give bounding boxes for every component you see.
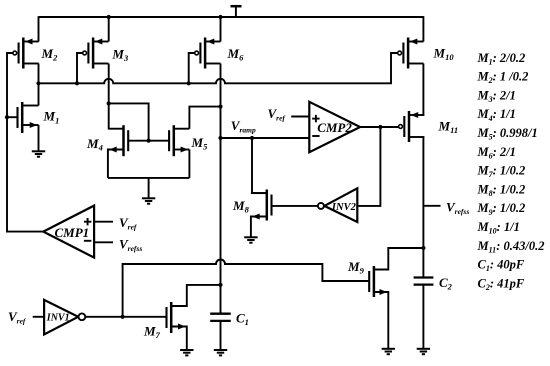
wire CMP2 output to M11 gate <box>360 126 399 128</box>
inverter INV2 <box>318 188 357 222</box>
wire M3 drain vertical <box>108 64 110 104</box>
svg-text:INV1: INV1 <box>46 312 70 323</box>
svg-text:INV2: INV2 <box>331 202 357 213</box>
transistor M5 (NMOS) <box>169 125 189 156</box>
node M3 gate / bus junction <box>75 81 79 85</box>
svg-text:C1: 40pF: C1: 40pF <box>478 258 525 274</box>
node M1 gate junction <box>5 115 9 119</box>
wire Vramp node to CMP2 negative input <box>221 137 310 139</box>
wire CMP1 positive input lead <box>94 221 113 223</box>
svg-text:C2: 41pF: C2: 41pF <box>478 276 525 292</box>
inverter INV1 <box>44 300 85 335</box>
node M7 drain / C1 junction <box>218 283 222 287</box>
node M5 drain / M6 drain junction <box>218 105 222 109</box>
ground under M8 <box>244 237 257 242</box>
wire C2 bottom to ground <box>422 285 424 349</box>
transistor M8 (NMOS) <box>251 190 272 221</box>
svg-text:M10: 1/1: M10: 1/1 <box>477 220 520 236</box>
svg-text:CMP1: CMP1 <box>55 225 90 240</box>
capacitor C1 <box>210 314 231 321</box>
transistor M11 (PMOS) <box>399 111 425 142</box>
wire M6 source to rail <box>220 16 222 41</box>
wire INV1 output to M9 gate (hops over C1 branch) <box>123 260 370 317</box>
wire tail rail to ground <box>148 178 150 198</box>
transistor M10 (PMOS) <box>398 38 424 69</box>
transistor M7 (NMOS) <box>167 302 187 333</box>
node M6 gate / bus junction <box>187 81 191 85</box>
transistor M3 (PMOS) <box>83 38 109 69</box>
wire M11 drain vertical down to C2 <box>422 137 424 278</box>
wire M10 source to rail <box>422 16 424 41</box>
node M4/M5 gate junction <box>147 139 151 143</box>
wire INV1 output to M7 gate <box>86 316 168 318</box>
wire M7 drain to C1 top node <box>172 285 220 306</box>
node CMP2 output / INV2 input junction <box>378 125 382 129</box>
wire M4 drain vertical <box>108 103 110 128</box>
wire M8 source to ground <box>251 217 266 238</box>
ground under M4/M5 tail <box>142 198 155 203</box>
op-amp CMP2 <box>309 102 360 152</box>
wire M2 drain / M1 drain vertical <box>38 64 40 106</box>
ground under M7 <box>180 350 193 355</box>
transistor M6 (PMOS) <box>195 38 221 69</box>
svg-text:M1: 2/0.2: M1: 2/0.2 <box>477 51 526 67</box>
wire Vref lead to INV1 input <box>33 316 44 318</box>
wire M7 source to ground <box>172 327 187 351</box>
node rail-M3 junction <box>107 15 111 19</box>
transistor M4 (NMOS) <box>108 125 128 156</box>
wire Vrefss tap <box>423 205 440 207</box>
svg-text:CMP2: CMP2 <box>317 120 352 135</box>
wire M3 source to rail <box>108 16 110 41</box>
wire M1 source to ground <box>38 125 40 151</box>
wire INV2 output to M8 gate <box>272 205 318 207</box>
wire M2 gate to CMP1 output <box>7 53 43 232</box>
wire CMP2 output to INV2 input <box>357 127 380 206</box>
wire M8 drain to Vramp line <box>252 138 266 193</box>
svg-text:M7: 1/0.2: M7: 1/0.2 <box>477 164 526 180</box>
wire VDD top rail <box>39 16 424 18</box>
wire M6 gate to bus <box>189 53 196 83</box>
wire M3 gate to bus <box>77 53 83 83</box>
wire M6 drain vertical down to C1 <box>220 64 222 314</box>
ground under C2 <box>417 349 430 354</box>
wire M4 source to tail rail <box>108 150 123 178</box>
wire M4/M5 tail rail <box>108 177 189 179</box>
node Vramp junction <box>218 136 222 140</box>
node M9 drain / C2 branch junction <box>421 246 425 250</box>
svg-text:M2: 1 /0.2: M2: 1 /0.2 <box>477 70 529 86</box>
wire Vref lead to CMP2 positive input <box>291 116 309 118</box>
node M2 drain / bus junction <box>36 81 40 85</box>
capacitor C2 <box>414 278 434 285</box>
ground under M9 <box>382 349 395 354</box>
ground under C1 <box>214 350 227 355</box>
wire M9 drain to output node <box>375 248 424 270</box>
wire CMP1 negative input lead <box>94 241 113 243</box>
wire M9 source to ground <box>375 292 388 349</box>
node INV1 output junction <box>121 315 125 319</box>
ground under M1 <box>32 151 45 156</box>
svg-text:M11: 0.43/0.2: M11: 0.43/0.2 <box>477 239 545 255</box>
transistor M9 (NMOS) <box>369 266 388 297</box>
op-amp CMP1 <box>43 206 94 258</box>
node rail-M6 junction <box>218 15 222 19</box>
wire C1 bottom to ground <box>220 321 222 350</box>
wire M1 gate lead <box>7 116 18 118</box>
transistor M1 (NMOS) <box>18 102 39 133</box>
node A: M3 drain / M4 drain junction <box>107 101 111 105</box>
power supply VDD symbol <box>231 6 242 17</box>
svg-text:M3: 2/1: M3: 2/1 <box>477 88 516 104</box>
svg-text:M4: 1/1: M4: 1/1 <box>477 107 516 123</box>
wire node A to M4/M5 gates <box>109 103 149 140</box>
transistor M2 (PMOS) <box>13 38 39 69</box>
wire mirror-gate bus (hops over M3 drain and M6 drain) to M10 gate <box>39 53 398 83</box>
wire M5 source to tail rail <box>188 150 190 178</box>
wire M5 drain to M6 drain line <box>189 107 220 129</box>
wire M2 source to rail <box>38 16 40 41</box>
svg-text:M9: 1/0.2: M9: 1/0.2 <box>477 201 526 217</box>
svg-text:M5: 0.998/1: M5: 0.998/1 <box>477 126 538 142</box>
svg-text:M6: 2/1: M6: 2/1 <box>477 145 516 161</box>
wire M10 drain to M11 source <box>422 64 424 116</box>
node M8 drain tap junction <box>250 136 254 140</box>
svg-text:M8: 1/0.2: M8: 1/0.2 <box>477 182 526 198</box>
wire M4 gate - M5 gate <box>128 140 169 142</box>
